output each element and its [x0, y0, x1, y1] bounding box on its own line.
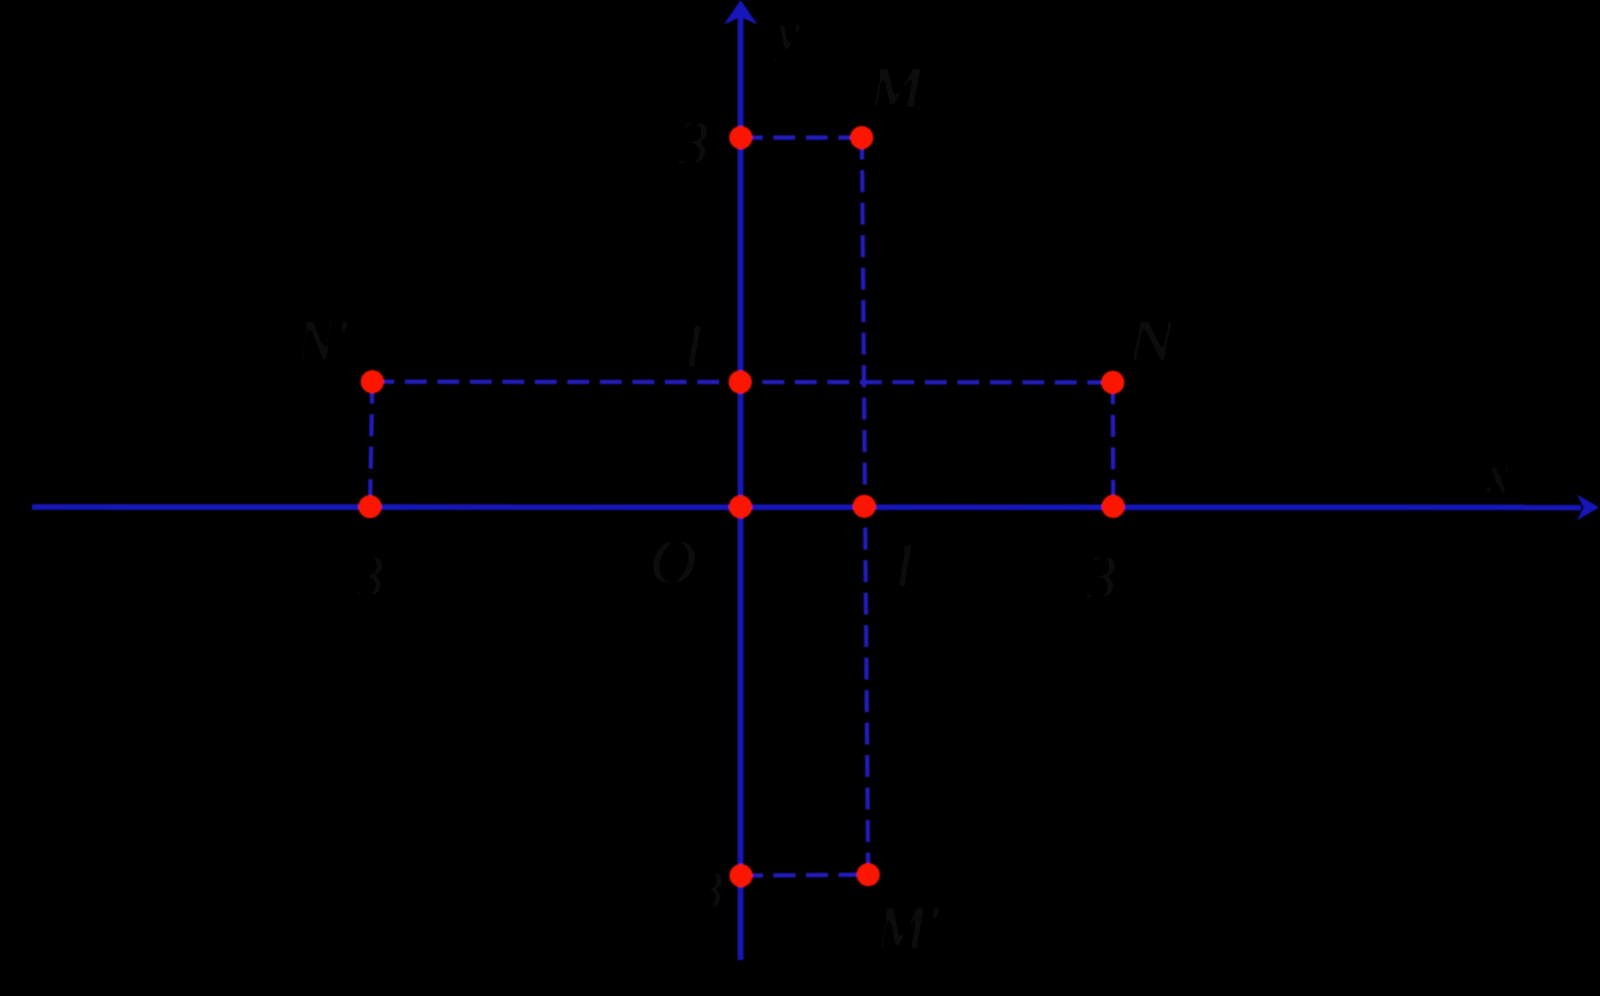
svg-text:N: N — [1126, 308, 1179, 373]
svg-text:N′: N′ — [295, 308, 349, 373]
svg-text:M: M — [868, 55, 926, 120]
node (0,3) — [729, 126, 752, 149]
svg-text:1: 1 — [678, 312, 709, 380]
svg-text:−3: −3 — [660, 860, 723, 920]
x-axis arrowhead — [1577, 495, 1599, 521]
node M (1,3) — [850, 126, 873, 149]
y-axis arrowhead — [724, 0, 758, 25]
svg-text:3: 3 — [1085, 544, 1117, 612]
node (0,1) — [729, 370, 752, 393]
svg-text:M′: M′ — [875, 895, 940, 961]
node (1,0) — [853, 495, 876, 518]
wire dashed segment: N'(-3,1) down to (-3,0) — [370, 382, 372, 507]
node N' (-3,1) — [361, 370, 384, 393]
wire dashed segment: N(3,1) down to (3,0) — [1111, 382, 1116, 506]
wire x-axis — [32, 504, 1581, 510]
wire dashed segment: N'(-3,1) to N(3,1) — [372, 380, 1113, 385]
svg-text:3: 3 — [677, 110, 709, 178]
wire dashed segment bottom: (0,-3) to M'(1,-3) — [741, 873, 868, 878]
wire dashed segment: M(1,3) down to M'(1,-3) — [862, 138, 868, 875]
node (0,-3) — [729, 864, 752, 887]
svg-text:1: 1 — [888, 529, 920, 600]
svg-text:−3: −3 — [316, 544, 384, 609]
svg-text:O: O — [650, 526, 696, 597]
node M' (1,-3) — [857, 863, 880, 886]
node (-3,0) — [358, 495, 381, 518]
node O origin — [729, 495, 752, 518]
svg-text:x: x — [1485, 444, 1510, 504]
wire dashed segment top: (0,3) to M(1,3) — [741, 136, 862, 140]
svg-text:y: y — [771, 2, 800, 62]
wire y-axis — [738, 14, 744, 960]
node (3,0) — [1102, 495, 1125, 518]
node N (3,1) — [1101, 371, 1124, 394]
